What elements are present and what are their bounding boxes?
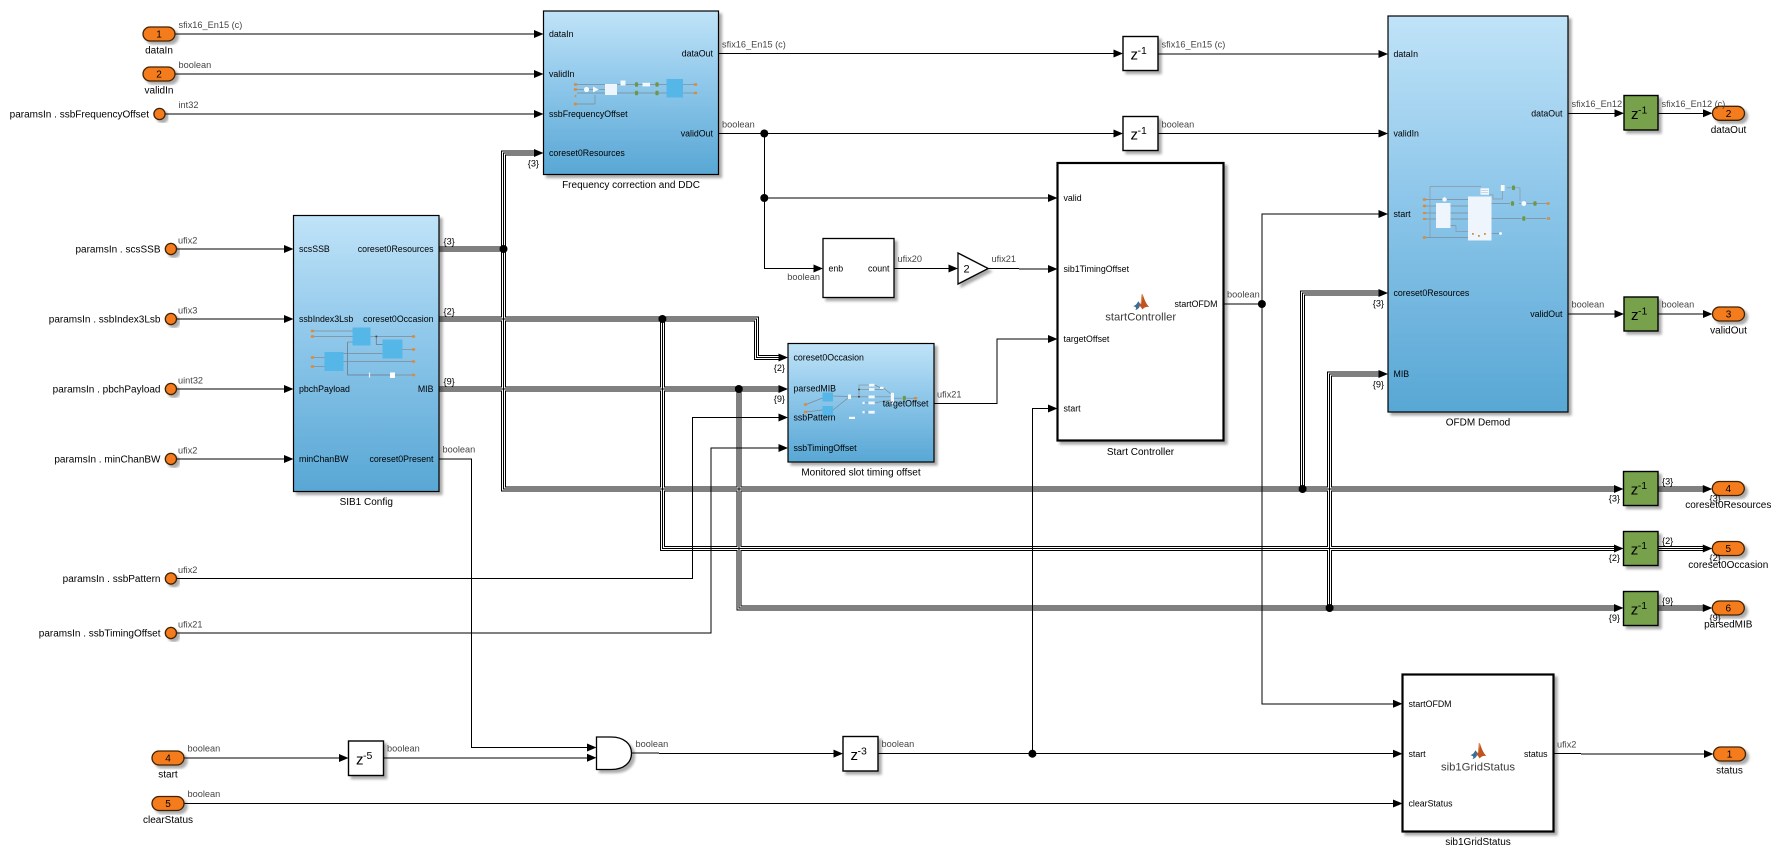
svg-text:boolean: boolean bbox=[1572, 300, 1605, 310]
svg-text:2: 2 bbox=[156, 70, 162, 81]
svg-text:{9}: {9} bbox=[774, 394, 785, 404]
svg-text:sfix16_En15 (c): sfix16_En15 (c) bbox=[179, 20, 243, 30]
svg-text:sib1GridStatus: sib1GridStatus bbox=[1441, 761, 1515, 773]
svg-text:boolean: boolean bbox=[1162, 120, 1195, 130]
svg-text:coreset0Present: coreset0Present bbox=[369, 454, 434, 464]
svg-text:paramsIn . ssbIndex3Lsb: paramsIn . ssbIndex3Lsb bbox=[49, 315, 161, 326]
svg-text:status: status bbox=[1524, 749, 1548, 759]
svg-text:ufix3: ufix3 bbox=[178, 306, 197, 316]
svg-text:sfix16_En15 (c): sfix16_En15 (c) bbox=[1162, 40, 1226, 50]
svg-text:Start Controller: Start Controller bbox=[1107, 447, 1175, 458]
svg-text:boolean: boolean bbox=[1662, 300, 1695, 310]
svg-text:start: start bbox=[1394, 209, 1412, 219]
svg-text:-1: -1 bbox=[1138, 45, 1147, 57]
svg-text:Frequency correction and DDC: Frequency correction and DDC bbox=[562, 180, 700, 191]
svg-text:4: 4 bbox=[165, 754, 171, 765]
svg-text:5: 5 bbox=[165, 799, 171, 810]
svg-text:ssbPattern: ssbPattern bbox=[794, 413, 836, 423]
svg-text:boolean: boolean bbox=[636, 739, 669, 749]
svg-text:{3}: {3} bbox=[1662, 477, 1673, 487]
svg-text:start: start bbox=[1409, 749, 1427, 759]
svg-text:validIn: validIn bbox=[145, 86, 174, 97]
svg-text:-1: -1 bbox=[1138, 125, 1147, 137]
svg-text:ssbIndex3Lsb: ssbIndex3Lsb bbox=[299, 314, 353, 324]
svg-text:status: status bbox=[1716, 766, 1743, 777]
svg-text:ufix20: ufix20 bbox=[898, 254, 923, 264]
svg-text:{3}: {3} bbox=[1710, 494, 1721, 504]
svg-text:validIn: validIn bbox=[549, 69, 575, 79]
svg-text:{9}: {9} bbox=[1373, 380, 1384, 390]
svg-text:start: start bbox=[158, 770, 178, 781]
svg-text:dataIn: dataIn bbox=[549, 29, 574, 39]
svg-text:-3: -3 bbox=[858, 745, 867, 757]
svg-text:{9}: {9} bbox=[1710, 613, 1721, 623]
svg-text:boolean: boolean bbox=[179, 60, 212, 70]
svg-text:{3}: {3} bbox=[528, 159, 539, 169]
svg-text:startOFDM: startOFDM bbox=[1409, 699, 1452, 709]
svg-text:ufix21: ufix21 bbox=[992, 254, 1017, 264]
svg-text:coreset0Resources: coreset0Resources bbox=[1685, 500, 1771, 511]
svg-text:int32: int32 bbox=[179, 100, 199, 110]
svg-text:-5: -5 bbox=[363, 750, 372, 762]
svg-text:-1: -1 bbox=[1638, 600, 1647, 612]
svg-text:{2}: {2} bbox=[1609, 553, 1620, 563]
svg-text:{2}: {2} bbox=[1710, 553, 1721, 563]
svg-text:coreset0Resources: coreset0Resources bbox=[1394, 288, 1470, 298]
svg-text:dataOut: dataOut bbox=[1711, 125, 1747, 136]
svg-text:startController: startController bbox=[1105, 311, 1176, 323]
svg-text:{9}: {9} bbox=[1609, 613, 1620, 623]
svg-text:ufix2: ufix2 bbox=[178, 236, 197, 246]
svg-text:boolean: boolean bbox=[882, 739, 915, 749]
svg-text:coreset0Resources: coreset0Resources bbox=[358, 244, 434, 254]
svg-text:{9}: {9} bbox=[444, 377, 455, 387]
svg-text:-1: -1 bbox=[1638, 480, 1647, 492]
svg-text:{3}: {3} bbox=[444, 237, 455, 247]
svg-text:sfix16_En12: sfix16_En12 bbox=[1572, 99, 1623, 109]
svg-text:MIB: MIB bbox=[1394, 369, 1410, 379]
svg-text:1: 1 bbox=[1727, 750, 1733, 761]
svg-text:5: 5 bbox=[1726, 544, 1732, 555]
svg-text:validIn: validIn bbox=[1394, 129, 1420, 139]
svg-text:targetOffset: targetOffset bbox=[883, 399, 929, 409]
svg-text:validOut: validOut bbox=[681, 129, 714, 139]
svg-text:startOFDM: startOFDM bbox=[1174, 299, 1217, 309]
svg-text:uint32: uint32 bbox=[178, 376, 203, 386]
svg-text:boolean: boolean bbox=[722, 120, 755, 130]
svg-text:sfix16_En12 (c): sfix16_En12 (c) bbox=[1662, 99, 1726, 109]
svg-text:{2}: {2} bbox=[1662, 536, 1673, 546]
svg-text:coreset0Resources: coreset0Resources bbox=[549, 148, 625, 158]
svg-text:paramsIn . ssbFrequencyOffset: paramsIn . ssbFrequencyOffset bbox=[10, 110, 150, 121]
svg-text:4: 4 bbox=[1726, 484, 1732, 495]
svg-text:sib1GridStatus: sib1GridStatus bbox=[1445, 837, 1511, 848]
svg-text:OFDM Demod: OFDM Demod bbox=[1446, 418, 1510, 429]
svg-text:validOut: validOut bbox=[1710, 326, 1747, 337]
svg-text:SIB1 Config: SIB1 Config bbox=[340, 497, 393, 508]
svg-text:clearStatus: clearStatus bbox=[143, 815, 193, 826]
svg-text:{3}: {3} bbox=[1609, 494, 1620, 504]
svg-text:Monitored slot timing offset: Monitored slot timing offset bbox=[801, 468, 921, 479]
svg-text:ufix21: ufix21 bbox=[178, 620, 203, 630]
svg-text:boolean: boolean bbox=[387, 744, 420, 754]
svg-text:paramsIn . scsSSB: paramsIn . scsSSB bbox=[75, 245, 160, 256]
svg-text:-1: -1 bbox=[1638, 306, 1647, 318]
svg-text:-1: -1 bbox=[1638, 540, 1647, 552]
svg-text:-1: -1 bbox=[1638, 104, 1647, 116]
svg-text:paramsIn . ssbTimingOffset: paramsIn . ssbTimingOffset bbox=[39, 629, 161, 640]
svg-text:ufix2: ufix2 bbox=[178, 446, 197, 456]
svg-text:sib1TimingOffset: sib1TimingOffset bbox=[1064, 264, 1130, 274]
svg-text:ufix2: ufix2 bbox=[178, 565, 197, 575]
svg-text:parsedMIB: parsedMIB bbox=[794, 384, 837, 394]
svg-text:{9}: {9} bbox=[1662, 596, 1673, 606]
svg-text:ssbTimingOffset: ssbTimingOffset bbox=[794, 443, 858, 453]
svg-text:{2}: {2} bbox=[444, 307, 455, 317]
svg-text:valid: valid bbox=[1064, 193, 1082, 203]
svg-text:boolean: boolean bbox=[188, 744, 221, 754]
svg-text:coreset0Occasion: coreset0Occasion bbox=[794, 353, 865, 363]
svg-text:start: start bbox=[1064, 404, 1082, 414]
svg-text:1: 1 bbox=[156, 30, 162, 41]
svg-text:paramsIn . minChanBW: paramsIn . minChanBW bbox=[54, 455, 161, 466]
svg-text:count: count bbox=[868, 264, 890, 274]
svg-text:dataOut: dataOut bbox=[1531, 108, 1563, 118]
svg-text:6: 6 bbox=[1726, 604, 1732, 615]
svg-text:paramsIn . ssbPattern: paramsIn . ssbPattern bbox=[63, 574, 161, 585]
svg-text:clearStatus: clearStatus bbox=[1409, 799, 1454, 809]
svg-text:2: 2 bbox=[1726, 109, 1732, 120]
svg-text:ssbFrequencyOffset: ssbFrequencyOffset bbox=[549, 109, 628, 119]
svg-text:MIB: MIB bbox=[418, 384, 434, 394]
svg-text:coreset0Occasion: coreset0Occasion bbox=[363, 314, 434, 324]
svg-text:coreset0Occasion: coreset0Occasion bbox=[1688, 560, 1768, 571]
svg-text:ufix21: ufix21 bbox=[937, 390, 962, 400]
svg-text:dataIn: dataIn bbox=[145, 46, 173, 57]
svg-text:targetOffset: targetOffset bbox=[1064, 334, 1110, 344]
svg-text:dataOut: dataOut bbox=[682, 49, 714, 59]
svg-text:paramsIn . pbchPayload: paramsIn . pbchPayload bbox=[53, 385, 161, 396]
svg-text:dataIn: dataIn bbox=[1394, 49, 1419, 59]
svg-text:minChanBW: minChanBW bbox=[299, 454, 349, 464]
svg-text:sfix16_En15 (c): sfix16_En15 (c) bbox=[722, 40, 786, 50]
svg-text:{2}: {2} bbox=[774, 363, 785, 373]
svg-text:pbchPayload: pbchPayload bbox=[299, 384, 350, 394]
svg-text:boolean: boolean bbox=[443, 445, 476, 455]
svg-text:validOut: validOut bbox=[1530, 309, 1563, 319]
svg-text:2: 2 bbox=[963, 263, 969, 275]
svg-text:enb: enb bbox=[829, 264, 844, 274]
svg-text:scsSSB: scsSSB bbox=[299, 244, 330, 254]
svg-text:boolean: boolean bbox=[188, 789, 221, 799]
svg-text:boolean: boolean bbox=[1227, 290, 1260, 300]
svg-text:boolean: boolean bbox=[787, 272, 820, 282]
svg-text:3: 3 bbox=[1726, 310, 1732, 321]
svg-text:{3}: {3} bbox=[1373, 299, 1384, 309]
svg-text:ufix2: ufix2 bbox=[1557, 740, 1576, 750]
